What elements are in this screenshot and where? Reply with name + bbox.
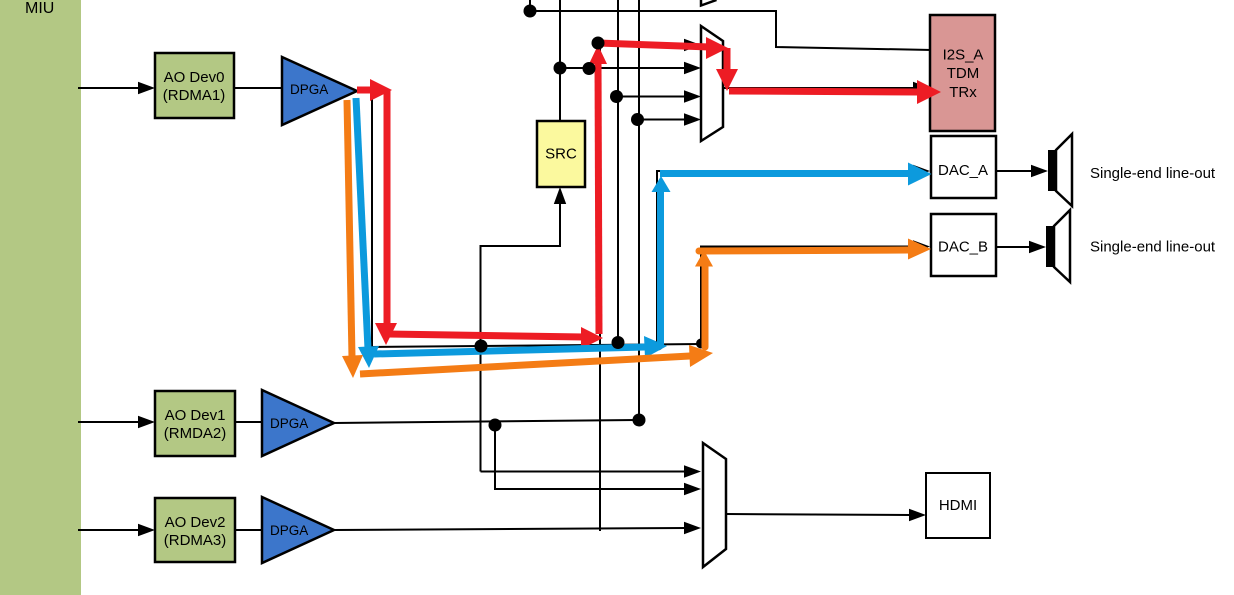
svg-text:DPGA: DPGA — [270, 523, 308, 538]
wire mux2 output to HDMI — [726, 509, 926, 521]
svg-text:TRx: TRx — [949, 84, 977, 101]
junction dot x617 y96 — [610, 90, 623, 103]
wire mux2 input2 branch — [495, 423, 686, 489]
svg-text:Single-end line-out: Single-end line-out — [1090, 239, 1216, 256]
blue path segment 1 (down from DPGA0) — [356, 98, 379, 368]
wire mux1 input1 — [600, 39, 701, 51]
block I2S_A TDM TRx — [930, 15, 995, 131]
wire SRC feed vertical — [481, 192, 561, 472]
svg-text:MIU: MIU — [25, 0, 54, 17]
wire mux1 input3 — [618, 90, 701, 102]
svg-text:Single-end line-out: Single-end line-out — [1090, 165, 1216, 182]
amplifier DPGA (U5 for Dev2) — [235, 497, 334, 563]
mux U2 (partial at top edge) — [701, 0, 717, 6]
svg-text:(RMDA2): (RMDA2) — [164, 425, 227, 442]
junction dot bus x658 (DAC_A branch) — [653, 341, 663, 351]
svg-text:(RDMA3): (RDMA3) — [164, 532, 227, 549]
svg-text:AO Dev1: AO Dev1 — [165, 407, 226, 424]
orange path segment 1 (down from DPGA0) — [342, 100, 363, 378]
junction dot x589 y68 (SRC wire joins red path) — [583, 62, 596, 75]
junction dot bus x617 — [612, 336, 625, 349]
svg-text:HDMI: HDMI — [939, 497, 977, 514]
svg-text:DAC_A: DAC_A — [938, 162, 988, 179]
wire mux1 input4 — [639, 113, 701, 125]
block AO Dev2 (RDMA3) — [155, 498, 235, 562]
block SRC — [537, 121, 585, 187]
junction dot DPGA1 line x638 — [633, 414, 646, 427]
block AO Dev1 (RMDA2) — [155, 391, 235, 456]
svg-text:TDM: TDM — [947, 65, 980, 82]
wire DAC_A feed (up from bus and right) — [657, 165, 930, 344]
svg-text:AO Dev2: AO Dev2 — [165, 514, 226, 531]
junction dot DPGA1 line x495 — [489, 419, 502, 432]
wire MIU to AO Dev1 — [78, 416, 155, 428]
junction dot x530 y9 — [524, 5, 537, 18]
red path segment 2 (down) — [375, 90, 397, 345]
arrow into SRC bottom — [554, 187, 566, 204]
block HDMI — [926, 473, 990, 538]
wire DAC_A to speaker — [996, 165, 1048, 177]
wire DPGA0 output stub — [357, 90, 372, 347]
junction dot bus x482 — [475, 340, 488, 353]
block DAC_A — [931, 136, 996, 198]
red path segment 3 (right along y334) — [388, 327, 603, 349]
wire mux2 input1 (from bus x482) — [481, 471, 687, 473]
svg-text:DPGA: DPGA — [290, 82, 328, 97]
blue path segment 3 (up x658) — [652, 176, 671, 346]
wire bus Dev0 horizontal — [372, 344, 701, 347]
wire top-left vertical x530 — [529, 0, 531, 11]
wire vertical x617 — [617, 0, 619, 343]
mux U6 (bottom mux) — [703, 443, 726, 567]
orange path segment 4 (into DAC_B) — [699, 239, 931, 260]
orange path segment 2 (right along y374-355) — [360, 345, 713, 374]
block DAC_B — [931, 214, 996, 276]
wire top route to I2S — [530, 11, 932, 50]
amplifier DPGA (U4 for Dev1) — [235, 390, 334, 456]
wire MIU to AO Dev0 — [78, 82, 155, 94]
blue path segment 4 (into DAC_A) — [660, 163, 932, 186]
orange path segment 3 (up x705) — [695, 251, 713, 348]
svg-text:AO Dev0: AO Dev0 — [164, 69, 225, 86]
svg-text:I2S_A: I2S_A — [943, 47, 984, 64]
wire MIU to AO Dev2 — [78, 524, 155, 536]
svg-text:DPGA: DPGA — [270, 416, 308, 431]
amplifier DPGA (U1 for Dev0) — [282, 57, 357, 125]
svg-text:SRC: SRC — [545, 146, 577, 163]
red path segment 6 (down after mux) — [716, 48, 738, 91]
speaker LS1 — [1048, 134, 1072, 206]
wire DAC_B to speaker — [996, 241, 1046, 253]
junction dot x560 y68 — [554, 62, 567, 75]
speaker LS2 — [1046, 210, 1070, 282]
blue path segment 2 (right along y354-347) — [374, 336, 667, 358]
red path segment 4 (up x599) — [589, 45, 607, 334]
junction dot x597 y43 — [592, 37, 605, 50]
red path segment 7 (into I2S) — [729, 80, 941, 104]
block AO Dev0 (RDMA1) — [155, 53, 234, 118]
svg-text:DAC_B: DAC_B — [938, 239, 988, 256]
wire vertical x600 (mux1 in1 to DPGA2 line) — [599, 43, 601, 531]
wire AO Dev0 to DPGA — [234, 87, 282, 89]
wire SRC output vertical x560 — [559, 0, 561, 121]
wire mux1 output to I2S — [723, 82, 930, 94]
junction dot bus x701 (DAC_B branch) — [696, 339, 706, 349]
wire mux1 input2 — [560, 62, 701, 74]
mux U3 (top mux) — [701, 26, 723, 141]
svg-text:(RDMA1): (RDMA1) — [163, 87, 226, 104]
wire DAC_B feed (up from bus and right) — [701, 240, 930, 345]
red path segment 5 (right into mux) — [598, 37, 728, 59]
junction dot x638 y119 — [631, 113, 644, 126]
red path segment 1 (DPGA0 out) — [357, 79, 392, 101]
wire DPGA2 output to mux2 input3 — [334, 522, 701, 534]
wire vertical x638 — [638, 0, 640, 420]
MIU memory block — [0, 0, 81, 595]
wire DPGA1 output line — [334, 420, 638, 423]
